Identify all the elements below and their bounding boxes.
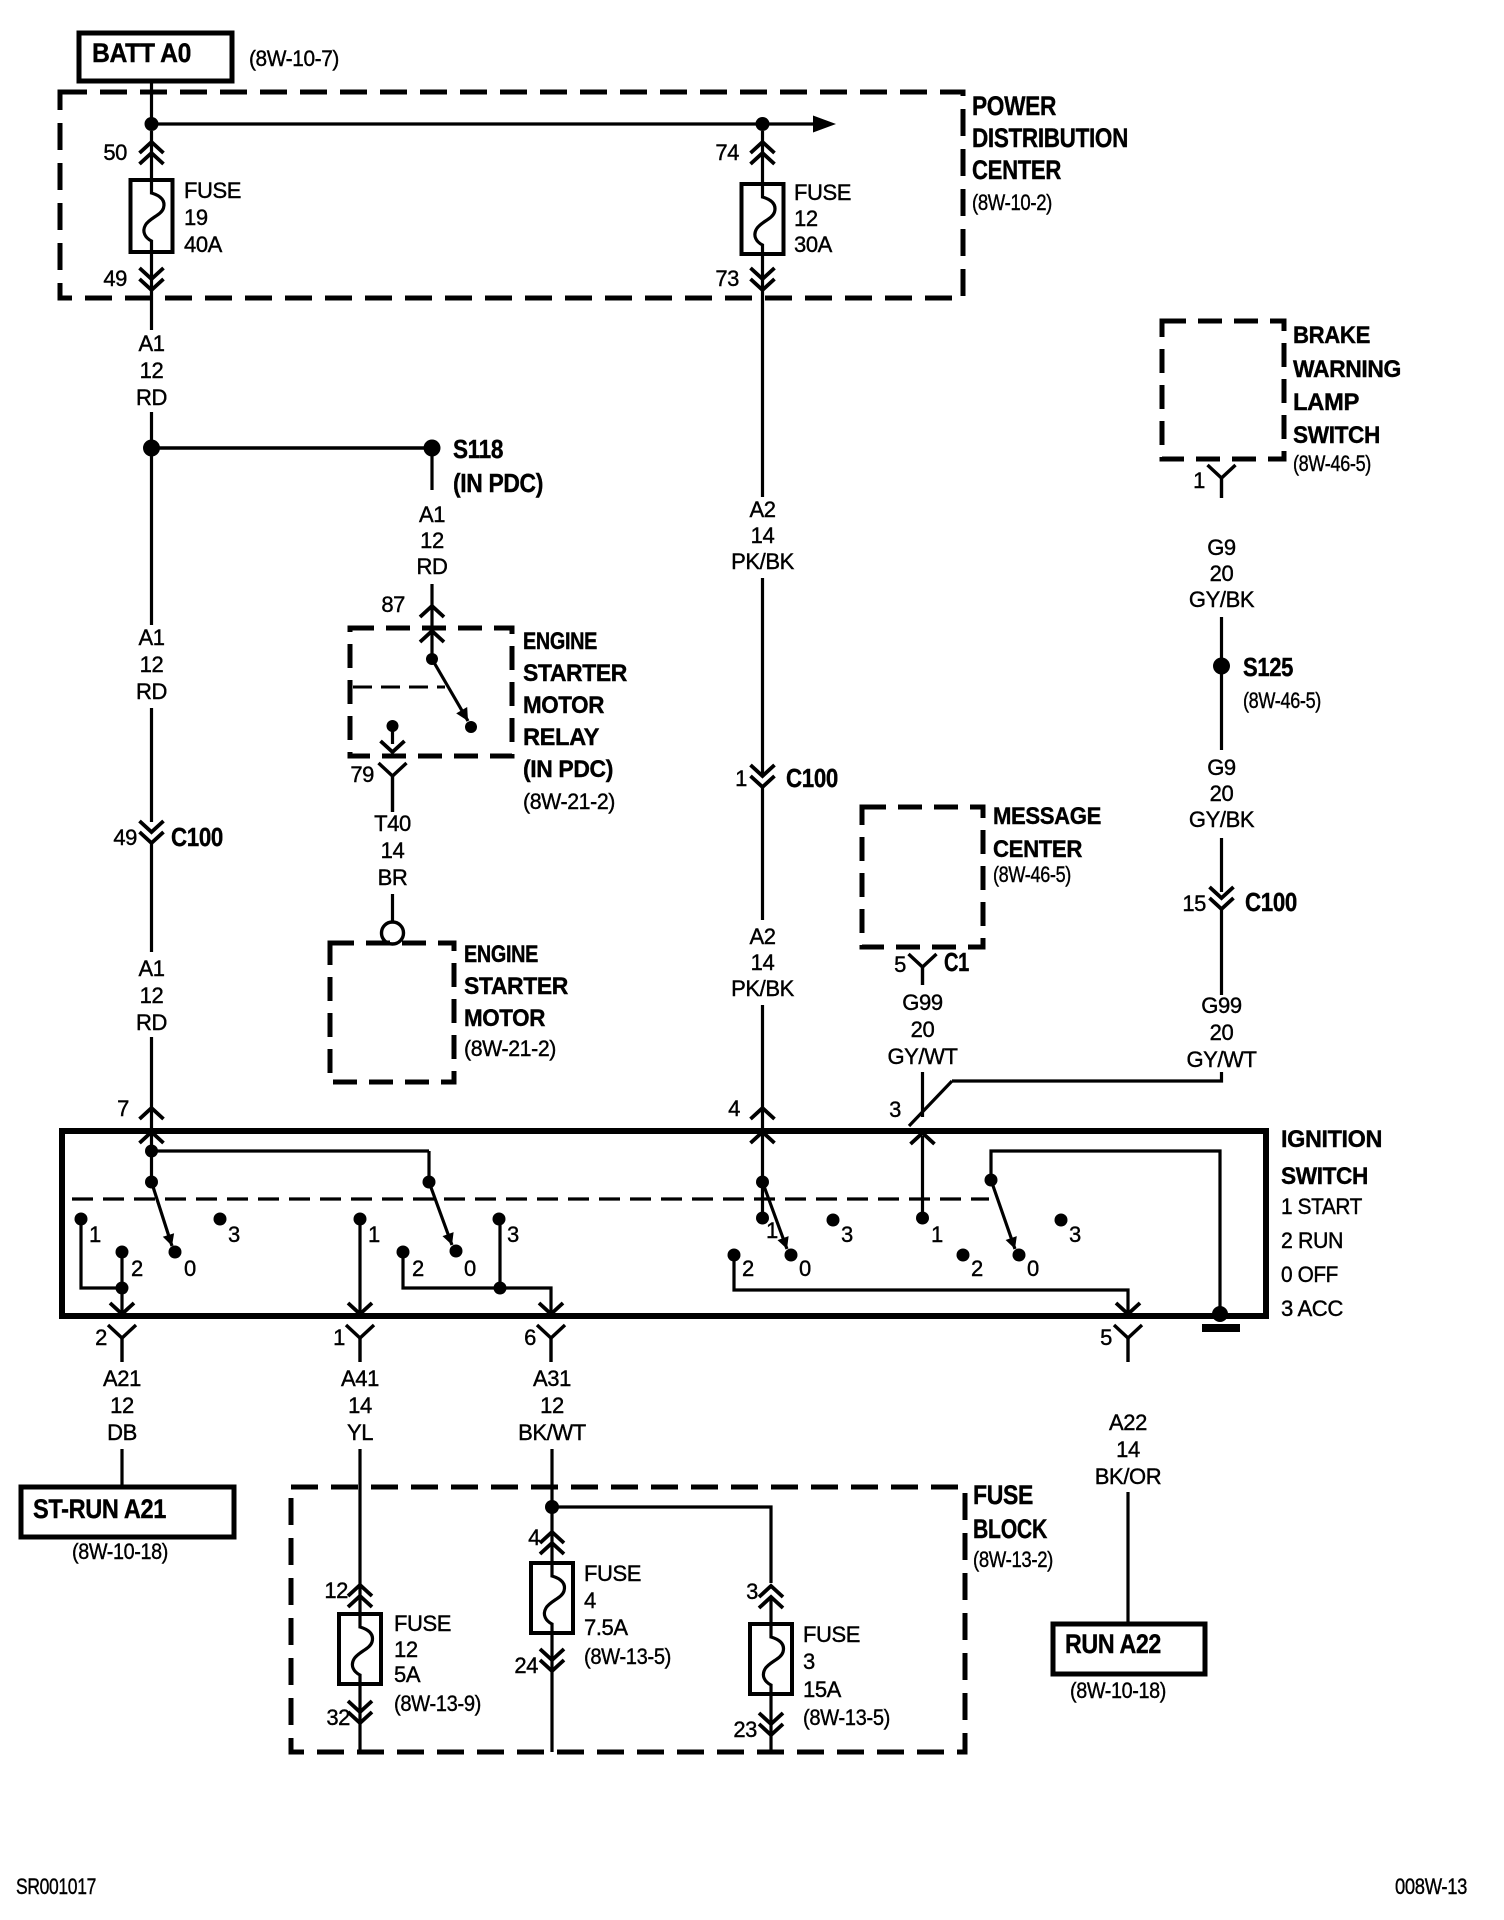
svg-text:RD: RD [136,385,167,410]
wire to S118 [150,412,153,441]
svg-text:3: 3 [228,1222,240,1247]
svg-text:S118: S118 [453,434,503,464]
pin 1 [333,1325,374,1362]
Message Center dashed box [862,807,983,947]
svg-text:14: 14 [348,1393,372,1418]
pin 23 [733,1713,783,1742]
splice S118 (IN PDC) [424,434,544,498]
wire to C100 [1220,838,1223,892]
svg-text:3 ACC: 3 ACC [1281,1296,1344,1321]
svg-text:24: 24 [514,1653,538,1678]
svg-text:ENGINE: ENGINE [523,628,597,655]
splice S125 (8W-46-5) [1213,652,1321,713]
svg-text:20: 20 [911,1017,935,1042]
relay NO contact [465,721,477,733]
wire label A22 14 BK/OR [1095,1410,1161,1489]
Engine Starter Motor Relay dashed box [350,628,512,756]
switch 4 contact 0 [1013,1249,1040,1282]
svg-text:(8W-46-5): (8W-46-5) [993,862,1071,887]
switch 3 wiper [756,1176,789,1250]
svg-text:A1: A1 [138,331,164,356]
connector C100 pin 15 [1182,887,1297,917]
svg-text:0: 0 [184,1256,196,1281]
svg-text:2: 2 [971,1256,983,1281]
svg-text:FUSE: FUSE [394,1611,451,1636]
starter motor terminal circle [382,922,404,944]
wire label A1 12 RD (upper) [136,331,167,410]
svg-text:FUSE: FUSE [973,1480,1033,1510]
wire label A2 14 PK/BK (upper) [731,497,795,574]
svg-text:5A: 5A [394,1662,421,1687]
switch 3 contact 3 [827,1214,854,1248]
label BRAKE WARNING LAMP SWITCH (8W-46-5) [1293,322,1401,476]
switch 3 contact 1 [756,1212,778,1244]
node junction at A1 tap [143,440,160,457]
wire C100 to label [1220,909,1223,995]
svg-text:CENTER: CENTER [993,836,1082,863]
wire A31 into fuse block [550,1449,553,1503]
label ENGINE STARTER MOTOR (8W-21-2) [464,941,568,1061]
power feed box ST-RUN A21 [21,1487,234,1537]
svg-text:SWITCH: SWITCH [1281,1163,1368,1190]
svg-text:2: 2 [412,1256,424,1281]
wire S118 branch to relay [430,584,433,656]
svg-text:2: 2 [95,1325,107,1350]
svg-text:BLOCK: BLOCK [973,1514,1048,1544]
wire node to fuse 12 [761,131,764,184]
reference (8W-10-7) [249,46,339,71]
wire fuse 12 to box edge [358,1684,361,1752]
svg-text:20: 20 [1210,1020,1234,1045]
switch 2 wiper [423,1176,454,1246]
pin 49 [103,266,163,291]
svg-text:32: 32 [326,1705,350,1730]
svg-text:BK/WT: BK/WT [518,1420,586,1445]
svg-text:(8W-46-5): (8W-46-5) [1243,688,1321,713]
pin 5 [1100,1325,1142,1362]
wire A1 mid section [150,456,153,625]
relay output contact [387,720,399,732]
svg-text:7: 7 [117,1096,129,1121]
svg-text:3: 3 [889,1097,901,1122]
svg-text:14: 14 [751,523,775,548]
svg-text:3: 3 [746,1579,758,1604]
svg-text:MESSAGE: MESSAGE [993,803,1101,830]
svg-text:(8W-10-7): (8W-10-7) [249,46,339,71]
Engine Starter Motor dashed box [330,943,454,1082]
fuse 12 5A [339,1614,381,1684]
switch 3 feed wire [761,1142,764,1213]
wire contact 1 to junction [81,1225,118,1288]
wire contact 2 to junction [116,1257,129,1295]
label FUSE 12 5A (8W-13-9) [394,1611,481,1716]
label IGNITION SWITCH positions [1281,1126,1382,1321]
wire label A2 14 PK/BK (lower) [731,924,795,1001]
node junction on bus [145,117,159,131]
pin 79 [350,762,406,812]
wire label G99 20 GY/WT (right) [1186,993,1256,1072]
switch 2 contact 2 [397,1246,425,1282]
svg-text:7.5A: 7.5A [584,1615,628,1640]
svg-text:YL: YL [347,1420,373,1445]
wire C100 to label [761,787,764,920]
svg-text:MOTOR: MOTOR [464,1005,545,1032]
wire node to fuse 19 [150,131,153,180]
footer 008W-13 [1395,1874,1467,1899]
svg-text:MOTOR: MOTOR [523,692,604,719]
wire fuse 12 down through PDC edge [761,254,764,497]
relay wiper arm [432,659,468,721]
reference (8W-10-18) right [1070,1678,1166,1703]
wire contact 2 to junction [403,1257,548,1288]
svg-text:12: 12 [110,1393,134,1418]
svg-text:50: 50 [103,140,127,165]
svg-text:(IN PDC): (IN PDC) [453,468,543,498]
svg-text:STARTER: STARTER [464,973,568,1000]
relay common contact [426,653,438,665]
svg-text:GY/BK: GY/BK [1189,807,1255,832]
pin 4 fuse block [528,1525,564,1554]
bus wire with arrow [152,116,837,133]
wire contact 1 to pin 1 [348,1225,372,1314]
svg-text:ENGINE: ENGINE [464,941,538,968]
connector C100 pin 1 [735,763,838,793]
svg-text:3: 3 [507,1222,519,1247]
svg-text:12: 12 [794,206,818,231]
svg-text:RD: RD [136,679,167,704]
svg-text:14: 14 [751,950,775,975]
svg-text:PK/BK: PK/BK [731,549,795,574]
svg-text:GY/WT: GY/WT [1186,1047,1256,1072]
switch 4 contact 3 [1055,1214,1082,1248]
wire contact 2 to pin 5 [734,1261,1140,1314]
pin 74 [715,140,774,165]
svg-text:C1: C1 [944,947,969,977]
svg-text:(8W-21-2): (8W-21-2) [464,1036,556,1061]
switch 2 contact 1 [354,1213,381,1248]
svg-text:5: 5 [894,952,906,977]
wire label G99 20 GY/WT (message) [887,990,957,1069]
svg-text:2: 2 [131,1256,143,1281]
svg-text:A21: A21 [103,1366,141,1391]
switch 1 wiper [145,1176,174,1247]
svg-text:STARTER: STARTER [523,660,627,687]
label FUSE 12 30A [794,180,851,257]
svg-text:DB: DB [107,1420,137,1445]
label ENGINE STARTER MOTOR RELAY (IN PDC) (8W-21-2) [523,628,627,814]
svg-text:S125: S125 [1243,652,1293,682]
wire branch to fuse 3 [552,1507,771,1583]
wire to ST-RUN A21 [120,1449,123,1487]
svg-text:RUN A22: RUN A22 [1065,1629,1161,1659]
svg-text:(8W-10-18): (8W-10-18) [1070,1678,1166,1703]
svg-text:A22: A22 [1109,1410,1147,1435]
svg-text:49: 49 [103,266,127,291]
wire S125 down [1220,674,1223,750]
svg-text:BRAKE: BRAKE [1293,322,1370,349]
svg-text:RELAY: RELAY [523,724,599,751]
svg-text:A1: A1 [138,956,164,981]
svg-text:2: 2 [742,1256,754,1281]
svg-text:12: 12 [140,358,164,383]
svg-text:C100: C100 [171,822,223,852]
svg-text:3: 3 [1069,1222,1081,1247]
svg-text:A2: A2 [749,497,775,522]
label FUSE BLOCK (8W-13-2) [973,1480,1053,1572]
svg-text:73: 73 [715,266,739,291]
wire contact 3 to junction [494,1225,507,1295]
switch 3 contact 0 [785,1249,812,1282]
connector pin 1 [1193,465,1235,498]
switch 1 contact 1 [75,1213,102,1248]
svg-text:5: 5 [1100,1325,1112,1350]
switch 1 contact 3 [214,1213,241,1248]
wire BATT A0 to node [150,81,153,120]
Fuse Block dashed box [291,1487,965,1752]
svg-text:(8W-13-5): (8W-13-5) [584,1644,671,1669]
svg-text:G9: G9 [1207,755,1236,780]
svg-text:0: 0 [464,1256,476,1281]
reference (8W-10-18) left [72,1539,168,1564]
footer SR001017 [16,1874,96,1899]
svg-text:RD: RD [417,554,448,579]
switch 4 contact 2 [957,1249,984,1282]
switch 1 feed junction [145,1145,158,1177]
svg-text:A1: A1 [419,502,445,527]
wire label A21 12 DB [103,1366,141,1445]
svg-text:CENTER: CENTER [972,155,1061,185]
svg-text:PK/BK: PK/BK [731,976,795,1001]
svg-text:40A: 40A [184,232,223,257]
svg-text:POWER: POWER [972,91,1056,121]
svg-text:4: 4 [584,1588,596,1613]
svg-text:A31: A31 [533,1366,571,1391]
wire label G9 20 GY/BK (upper) [1189,535,1255,612]
wire label A31 12 BK/WT [518,1366,586,1445]
connector C100 pin 49 [113,821,223,852]
wire fuse 19 down through PDC edge [150,252,153,330]
wire fuse 3 to box edge [769,1694,772,1752]
wire label A1 12 RD (middle) [136,625,167,704]
svg-text:008W-13: 008W-13 [1395,1874,1467,1899]
wire G99 elbow to pin 3 [909,1072,1222,1126]
svg-text:23: 23 [733,1717,757,1742]
svg-text:FUSE: FUSE [803,1622,860,1647]
wire T40 to starter motor [391,894,394,921]
label FUSE 3 15A (8W-13-5) [803,1622,890,1730]
pin 6 [524,1325,565,1362]
svg-text:1 START: 1 START [1281,1194,1362,1219]
svg-text:ST-RUN A21: ST-RUN A21 [33,1494,166,1524]
wire pin 3 to fuse 3 [769,1597,772,1624]
svg-text:79: 79 [350,762,374,787]
pin 2 [95,1325,136,1362]
label MESSAGE CENTER (8W-46-5) [993,803,1101,887]
svg-text:(8W-10-18): (8W-10-18) [72,1539,168,1564]
svg-text:87: 87 [381,592,405,617]
svg-text:49: 49 [113,825,137,850]
pin 3 entry [889,1097,934,1144]
svg-text:T40: T40 [374,811,411,836]
svg-text:A2: A2 [749,924,775,949]
switch 2 contact 0 [450,1245,477,1282]
wire below S118 [430,456,433,490]
wire switch 1 to switch 2 [152,1151,430,1176]
svg-text:A1: A1 [138,625,164,650]
label FUSE 4 7.5A (8W-13-5) [584,1561,671,1669]
wire label T40 14 BR [374,811,411,890]
svg-text:1: 1 [1193,468,1205,493]
wire junction to S118 [152,446,433,449]
svg-text:4: 4 [528,1525,540,1550]
svg-text:G99: G99 [1201,993,1242,1018]
pin 12 [324,1578,372,1607]
svg-text:4: 4 [728,1096,740,1121]
wire A2 to C100 [761,578,764,775]
svg-text:(8W-13-2): (8W-13-2) [973,1547,1053,1572]
junction A31 branch [545,1500,559,1514]
svg-text:BR: BR [378,865,408,890]
svg-text:12: 12 [140,983,164,1008]
power feed box BATT A0 [79,33,232,81]
svg-text:LAMP: LAMP [1293,389,1359,416]
pin 3 fuse block [746,1579,783,1608]
wire to ignition switch pin 4 [761,1005,764,1142]
svg-text:1: 1 [931,1222,943,1247]
svg-text:SWITCH: SWITCH [1293,422,1380,449]
relay output wire with arrow [381,731,405,752]
wire C100 to label [150,843,153,952]
wire to S125 [1220,617,1223,659]
wire fuse 4 to box edge [550,1633,553,1752]
pin 50 [103,140,163,165]
label POWER DISTRIBUTION CENTER (8W-10-2) [972,91,1128,215]
fuse 19 40A [131,180,173,252]
Power Distribution Center dashed box [60,92,963,298]
pin 87 [381,592,444,642]
svg-text:6: 6 [524,1325,536,1350]
svg-text:(IN PDC): (IN PDC) [523,756,613,783]
wire junction to pin 2 [110,1288,134,1314]
svg-text:(8W-13-9): (8W-13-9) [394,1691,481,1716]
svg-text:FUSE: FUSE [794,180,851,205]
svg-text:1: 1 [368,1222,380,1247]
svg-text:15A: 15A [803,1677,842,1702]
svg-text:20: 20 [1210,781,1234,806]
svg-text:DISTRIBUTION: DISTRIBUTION [972,123,1128,153]
pin 7 [117,1096,163,1143]
svg-text:G99: G99 [902,990,943,1015]
wire label G9 20 GY/BK (lower) [1189,755,1255,832]
svg-text:GY/BK: GY/BK [1189,587,1255,612]
svg-text:12: 12 [540,1393,564,1418]
relay internal dashed divider [353,686,445,689]
svg-text:0: 0 [1027,1256,1039,1281]
wire pin 4 to fuse 4 [550,1510,553,1563]
svg-text:12: 12 [394,1637,418,1662]
svg-text:12: 12 [420,528,444,553]
switch 4 wiper [985,1174,1017,1250]
svg-text:RD: RD [136,1010,167,1035]
wire to ignition switch pin 7 [150,1037,153,1151]
wire C1 to ignition pin 3 [921,1072,924,1117]
svg-text:FUSE: FUSE [184,178,241,203]
switch 4 feed wire [921,1136,924,1213]
pin 32 [326,1701,372,1730]
svg-text:GY/WT: GY/WT [887,1044,957,1069]
svg-text:19: 19 [184,205,208,230]
wire wiper to ground [991,1151,1220,1312]
switch position dashed line [72,1197,989,1200]
svg-text:1: 1 [766,1218,778,1243]
switch 2 contact 3 [493,1213,520,1248]
Brake Warning Lamp Switch dashed box [1162,321,1284,459]
wire label A1 12 RD (S118 branch) [417,502,448,579]
node junction at fuse 12 tap [756,117,770,131]
pin 4 [728,1096,774,1143]
svg-text:0: 0 [799,1256,811,1281]
svg-text:(8W-13-5): (8W-13-5) [803,1705,890,1730]
wire label A1 12 RD (lower) [136,956,167,1035]
svg-text:14: 14 [381,838,405,863]
label FUSE 19 40A [184,178,241,257]
power feed box RUN A22 [1053,1624,1205,1674]
wire label A41 14 YL [341,1366,379,1445]
switch 4 contact 1 [916,1212,943,1248]
connector C1 pin 5 [894,947,969,985]
svg-text:C100: C100 [1245,887,1297,917]
svg-text:0 OFF: 0 OFF [1281,1262,1338,1287]
svg-text:14: 14 [1116,1437,1140,1462]
svg-text:BK/OR: BK/OR [1095,1464,1161,1489]
svg-text:20: 20 [1210,561,1234,586]
svg-text:15: 15 [1182,891,1206,916]
fuse 12 30A [742,184,784,254]
switch 1 contact 0 [169,1246,197,1282]
svg-text:WARNING: WARNING [1293,356,1401,383]
ground [1202,1306,1240,1332]
wire to connector C100 [150,708,153,822]
svg-text:SR001017: SR001017 [16,1874,96,1899]
fuse 4 7.5A [531,1563,573,1633]
svg-text:(8W-46-5): (8W-46-5) [1293,451,1371,476]
wire junction to pin 6 [539,1288,563,1314]
svg-text:12: 12 [140,652,164,677]
svg-text:A41: A41 [341,1366,379,1391]
svg-text:30A: 30A [794,232,833,257]
svg-text:(8W-21-2): (8W-21-2) [523,789,615,814]
svg-text:IGNITION: IGNITION [1281,1126,1382,1153]
svg-text:1: 1 [735,766,747,791]
wire to RUN A22 [1126,1492,1129,1624]
svg-text:(8W-10-2): (8W-10-2) [972,190,1052,215]
svg-text:FUSE: FUSE [584,1561,641,1586]
svg-text:3: 3 [803,1649,815,1674]
Ignition Switch box [62,1131,1266,1316]
svg-text:3: 3 [841,1222,853,1247]
pin 73 [715,266,774,291]
svg-text:BATT A0: BATT A0 [92,38,191,68]
svg-text:C100: C100 [786,763,838,793]
svg-text:2 RUN: 2 RUN [1281,1228,1343,1253]
svg-text:1: 1 [89,1222,101,1247]
svg-text:74: 74 [715,140,739,165]
svg-text:12: 12 [324,1578,348,1603]
fuse 3 15A [750,1624,792,1694]
switch 3 contact 2 [728,1249,755,1282]
wire A41 into fuse block [358,1449,361,1614]
svg-text:G9: G9 [1207,535,1236,560]
